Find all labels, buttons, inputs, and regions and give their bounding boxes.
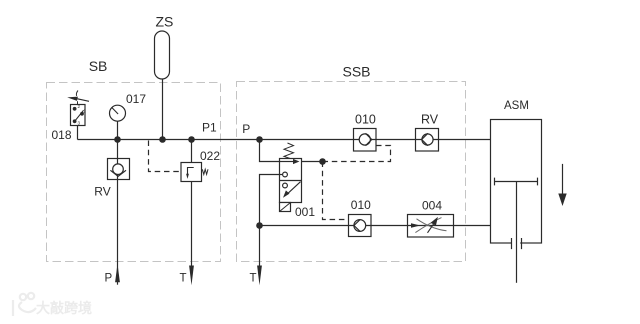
check valve RV upper [416,129,439,152]
valve 001 drain box [280,203,291,212]
junction 022 [188,136,195,143]
gauge 017 [110,105,126,121]
watermark logo [13,293,36,316]
svg-text:P: P [242,122,250,136]
wire T2 drop [259,226,261,267]
port T arrow 2 (down) [257,266,262,286]
pilot line to check valve 010 lower (dashed) [323,162,349,220]
svg-text:RV: RV [421,113,439,127]
svg-text:SB: SB [89,58,108,74]
svg-text:010: 010 [351,198,371,212]
wire valve 001 lower port to branch [260,175,280,226]
wire lower branch [260,225,491,227]
motion arrow [558,164,566,206]
svg-text:004: 004 [422,199,442,213]
flow control valve 004 [408,215,454,238]
svg-text:018: 018 [52,128,72,142]
junction gauge/RV [114,136,121,143]
wire switch drop [77,126,79,140]
wire ZS drop [162,79,164,140]
wire valve 001 output [302,161,323,163]
svg-text:P1: P1 [202,121,217,135]
svg-text:T: T [180,273,187,285]
wire P supply line [117,180,119,285]
junction lower branch [256,222,263,229]
wire T line (SB) [191,182,193,267]
enclosure SB dashed box [47,83,221,262]
port P arrow (up) [115,264,120,282]
svg-text:010: 010 [355,113,376,127]
cylinder ASM [491,120,542,283]
svg-text:P: P [105,273,113,285]
svg-text:017: 017 [126,92,146,106]
junction pilot node [319,158,326,165]
svg-text:001: 001 [295,205,315,219]
port T arrow (down) [189,266,194,286]
junction ZS [159,136,166,143]
enclosure SSB dashed box [237,82,466,262]
check valve 010 upper [354,129,377,152]
check valve RV (SB) [108,159,130,180]
pilot line to check valve 010 upper (dashed) [323,146,391,162]
check valve 010 lower [349,215,372,237]
wire gauge stem [117,121,119,139]
svg-text:T: T [250,273,257,285]
wire main rail P1 [78,139,491,141]
pilot line to 022 (dashed) [149,141,182,172]
pressure switch 018 [67,91,89,126]
svg-text:ASM: ASM [504,100,529,112]
relief valve 022 [181,163,208,182]
svg-text:ZS: ZS [156,14,174,30]
wire to valve 001 top port [260,140,280,162]
valve 001 spring [284,143,294,159]
wire RV(SB) vertical top [117,140,119,159]
svg-text:SSB: SSB [343,64,371,80]
svg-text:022: 022 [200,149,220,163]
valve 001 body [280,159,302,203]
svg-text:1: 1 [83,108,86,113]
svg-text:大敲跨境: 大敲跨境 [36,300,92,316]
junction P branch SSB [256,136,263,143]
wire 022 drop [191,140,193,163]
svg-text:RV: RV [94,185,110,199]
accumulator ZS [155,31,170,79]
